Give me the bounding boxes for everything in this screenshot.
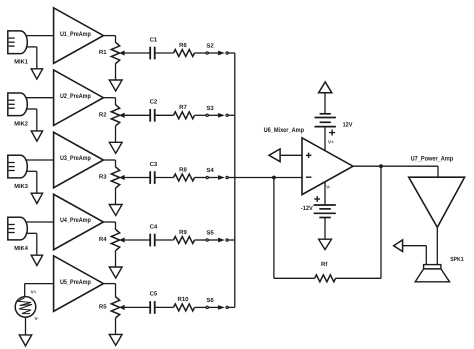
resistor R9 [174, 237, 195, 244]
svg-text:U6_Mixer_Amp: U6_Mixer_Amp [264, 127, 304, 134]
port arrow (U6 + input) [269, 149, 280, 162]
resistor R8 [174, 174, 195, 181]
svg-text:V+: V+ [31, 289, 37, 294]
svg-text:R2: R2 [99, 112, 107, 119]
wire battery to ground [324, 218, 326, 240]
wire R8 to S4 [195, 177, 207, 179]
ground (MIK1) [31, 69, 42, 79]
wire port to U6 non-inverting input [280, 154, 302, 156]
resistor R10 [174, 304, 195, 311]
svg-text:S2: S2 [206, 43, 214, 50]
wire summing bus (vertical) [234, 53, 236, 307]
svg-text:C2: C2 [150, 99, 158, 106]
svg-text:R4: R4 [99, 236, 107, 243]
wire MIK2 ground lead [26, 109, 37, 131]
svg-text:MIK2: MIK2 [14, 121, 28, 128]
svg-text:R6: R6 [179, 42, 187, 49]
svg-text:U7_Power_Amp: U7_Power_Amp [411, 155, 454, 162]
op-amp U1_PreAmp [54, 8, 104, 64]
capacitor C1 [150, 47, 155, 60]
svg-text:C5: C5 [150, 291, 158, 298]
ground (R3) [109, 205, 122, 216]
wire C4 to R9 [155, 239, 174, 241]
switch S2 [206, 51, 228, 55]
resistor R2 (potentiometer) [111, 105, 124, 143]
battery 12V [315, 114, 336, 127]
op-amp U4_PreAmp [54, 194, 104, 250]
signal source V (noise generator) [15, 297, 36, 318]
switch S4 [206, 176, 228, 180]
svg-text:C3: C3 [150, 161, 158, 168]
svg-text:V+: V+ [328, 140, 334, 145]
svg-text:U4_PreAmp: U4_PreAmp [60, 217, 91, 224]
microphone MIK4 [8, 217, 28, 240]
svg-text:U1_PreAmp: U1_PreAmp [60, 31, 91, 38]
wire feedback left (junction to Rf) [274, 178, 315, 279]
wire R10 to S6 [195, 306, 207, 308]
ground (MIK2) [31, 131, 42, 141]
wire R5 wiper to C5 [124, 306, 150, 308]
battery -12V [314, 205, 336, 218]
svg-text:-12V: -12V [301, 205, 314, 212]
resistor R3 (potentiometer) [111, 167, 124, 205]
resistor R6 [174, 50, 195, 57]
wire battery to power arrow [324, 93, 326, 114]
svg-text:R3: R3 [99, 174, 107, 181]
wire bus to U6 inverting input [235, 177, 302, 179]
svg-text:R1: R1 [99, 49, 107, 56]
ground (R4) [109, 267, 122, 278]
wire S4 to bus [228, 177, 235, 179]
wire C2 to R7 [155, 114, 174, 116]
wire R3 wiper to C3 [124, 177, 150, 179]
svg-text:R8: R8 [179, 166, 187, 173]
svg-text:S5: S5 [206, 230, 214, 237]
wire MIK1 output to U1 input [26, 35, 54, 37]
wire R9 to S5 [195, 239, 207, 241]
ground (V- battery) [319, 239, 332, 249]
svg-text:V-: V- [35, 316, 40, 321]
resistor R7 [174, 112, 195, 119]
svg-text:C1: C1 [150, 36, 158, 43]
wire MIK4 output to U4 input [26, 221, 54, 223]
wire U5 output to R5 [103, 284, 115, 298]
svg-text:V-: V- [326, 185, 331, 190]
svg-text:S6: S6 [206, 297, 214, 304]
wire MIK3 ground lead [26, 171, 37, 193]
node output junction [379, 164, 383, 168]
wire R1 wiper to C1 [124, 52, 150, 54]
wire R7 to S3 [195, 114, 207, 116]
ground (R1) [109, 80, 122, 91]
svg-text:R7: R7 [179, 104, 187, 111]
capacitor C5 [150, 301, 155, 314]
op-amp U2_PreAmp [54, 70, 104, 126]
wire R4 wiper to C4 [124, 239, 150, 241]
svg-text:MIK3: MIK3 [14, 183, 28, 190]
wire source to U5 input [25, 284, 54, 297]
wire R2 wiper to C2 [124, 114, 150, 116]
svg-text:S4: S4 [206, 167, 214, 174]
wire U6 output to U7 [353, 166, 438, 177]
capacitor C2 [150, 109, 155, 122]
battery -12V plus sign [314, 196, 320, 202]
svg-text:MIK4: MIK4 [14, 245, 28, 252]
wire U6 V- pin to battery [324, 182, 326, 205]
microphone MIK1 [8, 31, 28, 54]
svg-text:C4: C4 [150, 223, 158, 230]
resistor R1 (potentiometer) [111, 42, 124, 80]
svg-text:MIK1: MIK1 [14, 59, 28, 66]
switch S3 [206, 113, 228, 117]
power arrow (up) [319, 82, 332, 93]
svg-text:R10: R10 [177, 296, 189, 303]
op-amp U3_PreAmp [54, 132, 104, 188]
wire R6 to S2 [195, 52, 207, 54]
wire U1 output to R1 [103, 36, 115, 43]
op-amp U6_Mixer_Amp [302, 138, 353, 195]
resistor Rf [315, 275, 336, 282]
op-amp U7_Power_Amp [409, 177, 465, 227]
wire U4 output to R4 [103, 222, 115, 230]
wire C1 to R6 [155, 52, 174, 54]
wire S6 to bus [228, 306, 235, 308]
svg-text:SPK1: SPK1 [450, 256, 464, 263]
battery plus sign [329, 130, 335, 136]
svg-text:U3_PreAmp: U3_PreAmp [60, 155, 91, 162]
microphone MIK3 [8, 155, 28, 178]
capacitor C3 [150, 171, 155, 184]
switch S6 [206, 306, 228, 310]
node feedback junction [272, 176, 276, 180]
ground (source) [19, 335, 31, 346]
svg-text:R5: R5 [99, 304, 107, 311]
wire feedback right (Rf to output) [335, 166, 381, 278]
op-amp U5_PreAmp [54, 256, 104, 312]
wire S2 to bus [228, 52, 235, 54]
ground (MIK4) [31, 255, 42, 265]
wire SPK1 return to port [403, 246, 427, 265]
wire U3 output to R3 [103, 160, 115, 167]
wire source ground lead [25, 317, 27, 335]
speaker SPK1 [415, 265, 449, 282]
svg-text:S3: S3 [206, 105, 214, 112]
wire C3 to R8 [155, 177, 174, 179]
svg-text:12V: 12V [343, 121, 354, 128]
wire S3 to bus [228, 114, 235, 116]
capacitor C4 [150, 234, 155, 247]
microphone MIK2 [8, 93, 28, 116]
wire MIK2 output to U2 input [26, 97, 54, 99]
wire U2 output to R2 [103, 98, 115, 105]
ground (MIK3) [31, 193, 42, 203]
wire U6 V+ pin to battery [324, 127, 326, 151]
switch S5 [206, 238, 228, 242]
wire S5 to bus [228, 239, 235, 241]
svg-text:Rf: Rf [321, 261, 328, 268]
svg-text:R9: R9 [179, 229, 187, 236]
wire MIK1 ground lead [26, 47, 37, 69]
ground (R5) [109, 334, 122, 345]
wire MIK3 output to U3 input [26, 159, 54, 161]
wire C5 to R10 [155, 306, 174, 308]
svg-text:U5_PreAmp: U5_PreAmp [60, 279, 91, 286]
resistor R5 (potentiometer) [111, 297, 124, 335]
ground (R2) [109, 142, 122, 153]
wire U7 output to SPK1 [436, 227, 438, 264]
wire MIK4 ground lead [26, 233, 37, 255]
svg-text:U2_PreAmp: U2_PreAmp [60, 93, 91, 100]
resistor R4 (potentiometer) [111, 229, 124, 267]
port arrow (speaker return) [394, 240, 403, 252]
